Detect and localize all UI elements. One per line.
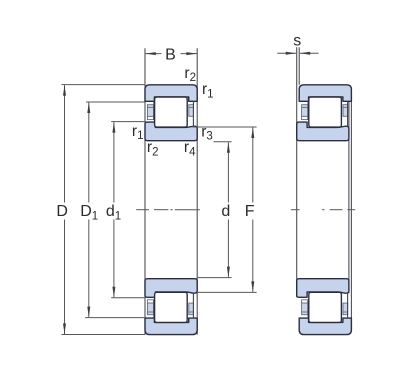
wire: right view outer-ring left face extension line bbox=[298, 47, 300, 85]
outer ring (left view, bottom section) bbox=[145, 318, 197, 335]
cage (left view, bottom section) bbox=[147, 292, 193, 318]
outer ring (right view, bottom section) bbox=[299, 318, 351, 335]
svg-text:d: d bbox=[221, 203, 230, 220]
roller (right view, bottom section) bbox=[309, 292, 342, 322]
dimension s bbox=[277, 52, 318, 54]
wire: left view side-face silhouette line (right) bbox=[196, 48, 198, 334]
roller (left view, bottom section) bbox=[155, 292, 188, 322]
dimension D1 bbox=[85, 102, 145, 318]
inner ring (right view, bottom section) bbox=[297, 279, 349, 298]
wire: right view outer-ring right face line bbox=[350, 101, 352, 318]
dimension D bbox=[62, 85, 146, 335]
svg-text:B: B bbox=[165, 47, 176, 64]
dimension F bbox=[193, 127, 257, 292]
inner ring (left view, bottom section) bbox=[145, 279, 197, 298]
wire: left view side-face silhouette line (left) bbox=[144, 48, 146, 334]
cage (left view, top section) bbox=[147, 101, 193, 127]
inner ring (left view, top section) bbox=[145, 122, 197, 141]
cage (right view, top section) bbox=[302, 101, 348, 127]
svg-text:D: D bbox=[56, 203, 68, 220]
centerline (left view) bbox=[136, 209, 200, 211]
svg-text:F: F bbox=[245, 203, 255, 220]
outer ring (left view, top section) bbox=[145, 85, 197, 102]
dimension B bbox=[145, 53, 197, 55]
cage (right view, bottom section) bbox=[302, 292, 348, 318]
roller (right view, top section) bbox=[309, 97, 342, 127]
outer ring (right view, top section) bbox=[299, 85, 351, 102]
wire: right view inner-ring left face line bbox=[296, 47, 298, 297]
centerline (right view) bbox=[291, 209, 355, 211]
inner ring (right view, top section) bbox=[297, 122, 349, 141]
svg-text:s: s bbox=[293, 33, 301, 50]
wire: right view inner-ring right face line bbox=[348, 101, 350, 293]
roller (left view, top section) bbox=[155, 97, 188, 127]
dimension d1 bbox=[111, 122, 144, 298]
dimension d bbox=[197, 142, 231, 278]
